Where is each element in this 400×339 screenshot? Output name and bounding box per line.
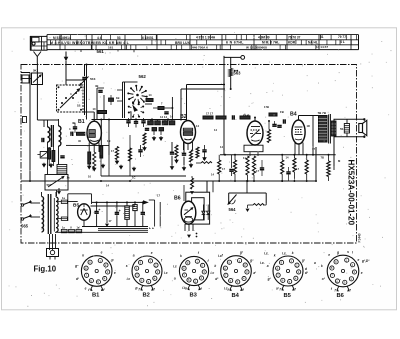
svg-text:F1440: F1440: [358, 233, 362, 242]
svg-text:76 76 37: 76 76 37: [288, 35, 301, 39]
svg-text:e: e: [361, 271, 363, 275]
wire x86: [86, 65, 88, 120]
svg-text:i.c.: i.c.: [282, 252, 287, 256]
svg-text:B6: B6: [174, 196, 181, 202]
svg-text:6 15051: 6 15051: [142, 36, 154, 40]
rotary wafer switch upper: [127, 85, 147, 106]
svg-text:1B: 1B: [116, 96, 119, 100]
tube B4: [292, 120, 305, 144]
B1 leads: [71, 143, 109, 153]
svg-text:81: 81: [320, 35, 324, 39]
svg-text:17: 17: [157, 194, 160, 198]
resistor below B3 join: [247, 175, 284, 182]
dial wavelength numbers row: [53, 35, 346, 40]
rectifier tube B5: [78, 204, 91, 220]
B1 top coupling wire: [92, 119, 187, 121]
coil with core: [57, 165, 67, 175]
svg-text:1: 1: [146, 46, 148, 50]
B2 grid wire: [187, 85, 226, 121]
B6 diodes: [202, 205, 210, 220]
svg-text:17: 17: [222, 167, 225, 171]
transformer bottom tap boxes: [61, 226, 81, 233]
svg-text:i.c: i.c: [211, 271, 215, 275]
svg-text:HX523A-00-01-20: HX523A-00-01-20: [347, 160, 356, 226]
svg-text:g⁴: g⁴: [249, 258, 254, 262]
svg-text:U: U: [70, 227, 72, 230]
svg-text:KDR: KDR: [288, 40, 296, 44]
oscillator coil L2: [59, 119, 61, 152]
osc resistor wires: [49, 147, 53, 166]
resistor 563: [229, 69, 241, 90]
cap drop 231: [229, 155, 233, 176]
svg-text:i.c: i.c: [164, 271, 168, 275]
ground B1: [88, 165, 90, 166]
svg-text:e: e: [358, 258, 360, 262]
resistor drop 282: [281, 155, 284, 181]
wire antenna down: [36, 63, 38, 73]
filter cap1: [94, 202, 101, 226]
chassis frame dash-dot border: [21, 65, 357, 244]
svg-text:B2: B2: [143, 293, 150, 299]
screen wire corner: [329, 155, 335, 181]
antenna trimmer: [21, 69, 43, 85]
svg-text:565: 565: [21, 224, 29, 229]
caps under switch: [126, 118, 145, 128]
svg-text:FB: FB: [280, 110, 284, 114]
svg-text:g⁴: g⁴: [74, 264, 79, 268]
svg-text:14: 14: [149, 93, 152, 97]
svg-text:i.c: i.c: [127, 277, 131, 281]
svg-text:14: 14: [170, 115, 173, 119]
resistor below B1: [100, 146, 103, 158]
tube socket diagram B5: [267, 251, 309, 292]
caps mid area: [222, 160, 299, 176]
svg-text:14: 14: [196, 124, 199, 128]
svg-text:14: 14: [286, 156, 289, 160]
heater bus lines: [55, 226, 154, 232]
tube B6: [181, 201, 196, 224]
antenna Y symbol: [34, 52, 42, 64]
AVC bus: [21, 147, 316, 192]
svg-text:5S: 5S: [340, 127, 344, 131]
field coil component: [340, 119, 350, 137]
power transformer secondary: [56, 197, 58, 232]
transformer secondary: [332, 121, 337, 136]
rotary wafer switch lower: [128, 101, 144, 117]
svg-text:i.c.: i.c.: [264, 252, 269, 256]
earth arrow under dial: [64, 52, 69, 86]
svg-text:s: s: [347, 250, 349, 254]
tone switch 564: [227, 193, 266, 212]
svg-text:a: a: [174, 277, 176, 281]
svg-text:B3: B3: [190, 293, 198, 299]
svg-text:1C: 1C: [132, 176, 135, 180]
svg-text:17: 17: [256, 169, 259, 173]
svg-text:4 4: 4 4: [97, 36, 102, 40]
resistor h mid: [196, 157, 212, 164]
svg-text:17: 17: [312, 147, 315, 151]
B2 leads: [184, 142, 193, 150]
wire left edge: [29, 73, 31, 182]
dial lower row: [108, 45, 328, 50]
filter cap2: [115, 202, 122, 226]
B4 leads: [295, 143, 303, 155]
ground B1b: [93, 167, 95, 168]
svg-text:k: k: [321, 264, 323, 268]
scan noise speckles: [9, 32, 392, 307]
loudspeaker: [359, 119, 367, 137]
small parts left of B1: [69, 123, 81, 143]
svg-text:4B: 4B: [72, 121, 75, 125]
svg-text:17: 17: [296, 167, 299, 171]
svg-text:+ +: + +: [149, 226, 154, 230]
tube socket diagram B4: [214, 251, 257, 292]
speaker top wire: [334, 118, 366, 120]
svg-text:14 14: 14 14: [160, 115, 167, 119]
wire from bus to B6: [183, 185, 185, 201]
resistors mid row: [143, 133, 146, 145]
svg-text:1a²: 1a²: [77, 226, 81, 230]
svg-text:B4: B4: [232, 293, 240, 299]
psu bus dots: [96, 201, 144, 203]
r3: [190, 150, 193, 162]
power transformer core: [48, 194, 51, 234]
svg-text:10: 10: [88, 175, 91, 179]
cap drop 283: [286, 167, 290, 181]
svg-text:k: k: [292, 251, 294, 255]
svg-text:5K3: 5K3: [90, 77, 96, 81]
svg-text:5K1: 5K1: [33, 69, 39, 73]
svg-text:i.c: i.c: [218, 254, 222, 258]
wire below B1 b: [88, 164, 90, 166]
svg-text:d: d: [305, 267, 307, 271]
tiny value labels texture: [67, 92, 342, 198]
svg-text:a: a: [267, 264, 269, 268]
fuse arrow above transformer: [57, 188, 61, 195]
grid bus second: [181, 89, 225, 120]
B4 anode wire: [299, 116, 320, 121]
caps below B2: [174, 145, 207, 168]
verticals left of switch: [97, 88, 107, 120]
transformer top wires: [42, 192, 57, 197]
B plus vertical: [312, 116, 314, 155]
dial left end cell with lamp: [31, 36, 48, 51]
svg-text:1B: 1B: [77, 104, 80, 108]
mains plug: [47, 234, 59, 260]
svg-text:14: 14: [106, 184, 109, 188]
svg-text:a: a: [314, 261, 316, 265]
lower bus2: [101, 175, 186, 177]
speaker bottom wire: [334, 136, 366, 138]
wires osc cluster: [37, 85, 71, 196]
wire x109: [108, 120, 110, 156]
svg-text:M 53149914: M 53149914: [53, 36, 71, 40]
svg-text:4 9M 49: 4 9M 49: [258, 36, 270, 40]
transformer winding inner lines: [43, 197, 54, 232]
svg-text:e: e: [328, 253, 330, 257]
components right of switch: [153, 97, 173, 120]
coupling components row dark boxes: [148, 115, 175, 125]
B5 wires: [68, 200, 149, 226]
bus drop wires: [101, 135, 130, 176]
svg-text:17: 17: [109, 219, 112, 223]
oscillator coil L1: [48, 120, 50, 150]
secondary tap boxes: [56, 196, 67, 220]
svg-text:4B: 4B: [95, 84, 98, 88]
terminal box left: [23, 117, 27, 123]
svg-text:g²,D²: g²,D²: [361, 259, 370, 263]
svg-text:B1: B1: [78, 119, 85, 125]
svg-text:14: 14: [214, 128, 217, 132]
svg-text:7B 7B: 7B 7B: [318, 111, 327, 115]
padder trimmer: [37, 152, 47, 159]
tube socket diagram B2: [126, 251, 168, 292]
bus junction dots: [29, 64, 330, 183]
small dark component: [133, 202, 137, 226]
svg-text:B5: B5: [284, 293, 292, 299]
tone resistor: [248, 204, 267, 206]
wire 564 to bus: [246, 181, 248, 193]
svg-text:4 L: 4 L: [340, 40, 345, 44]
B3 anode stub: [254, 117, 256, 122]
caps row above B3: [203, 112, 250, 120]
B5 heater loop box: [68, 194, 92, 221]
grid resistor left of B1: [77, 132, 85, 135]
resistor drop 307: [305, 155, 308, 181]
coil core: [50, 125, 52, 147]
transformer core: [329, 114, 331, 144]
svg-text:567: 567: [47, 183, 52, 187]
B2 cathode cap dark: [182, 142, 187, 171]
resistor R osc: [48, 148, 51, 159]
svg-text:561: 561: [97, 49, 105, 54]
svg-text:14: 14: [211, 173, 214, 177]
svg-text:k: k: [180, 254, 182, 258]
svg-text:NA HL: NA HL: [308, 40, 318, 44]
switch feed wires: [117, 82, 152, 120]
svg-text:e: e: [114, 271, 116, 275]
cap left of B1: [70, 132, 72, 136]
heater vertical wires: [149, 200, 160, 227]
svg-text:M 4 HILVSI WIENGTBWIEB KL KR: M 4 HILVSI WIENGTBWIEB KL KR NM 4 L: [50, 41, 130, 45]
left mid components: [101, 145, 143, 172]
B3 cathode loop: [244, 145, 263, 156]
caps osc: [42, 138, 65, 168]
svg-text:17B: 17B: [264, 105, 269, 109]
svg-text:17 17: 17 17: [206, 112, 213, 116]
resistor drop 219: [218, 155, 221, 181]
mid vertical wires to b6: [212, 181, 214, 192]
svg-text:l: l: [352, 251, 353, 255]
ticks below band: [81, 50, 134, 53]
svg-text:10: 10: [93, 107, 96, 111]
svg-text:Fig.10: Fig.10: [34, 265, 57, 274]
svg-text:s: s: [126, 264, 128, 268]
svg-text:i.c.: i.c.: [260, 261, 265, 265]
tube B1: [87, 112, 101, 144]
svg-text:563: 563: [234, 71, 242, 76]
r below B3 b: [252, 156, 255, 175]
svg-text:k: k: [274, 254, 276, 258]
svg-text:14 14.57: 14 14.57: [316, 45, 328, 49]
svg-text:k: k: [214, 264, 216, 268]
tone ground arrow: [246, 205, 250, 212]
tube socket diagram B6: [321, 250, 363, 292]
screen resistor: [327, 161, 330, 177]
tube B2: [181, 121, 196, 144]
svg-text:a: a: [133, 254, 135, 258]
svg-text:17: 17: [111, 149, 114, 153]
dial station names row: [50, 40, 345, 45]
ic labels: [218, 251, 370, 272]
svg-text:e: e: [151, 251, 153, 255]
mains switch 565: [21, 200, 40, 229]
trimmer 5K3: [79, 65, 96, 116]
svg-text:B4: B4: [290, 112, 297, 118]
resistor drop 294: [293, 155, 296, 181]
pilot lamp circle: [224, 56, 245, 155]
resistor below B1 b: [88, 152, 91, 164]
band switch 567: [45, 175, 68, 191]
filter cap3: [141, 202, 145, 226]
dial tick marks: [50, 35, 356, 50]
svg-text:k: k: [82, 253, 84, 257]
svg-text:161: 161: [108, 46, 113, 50]
mid second row parts: [145, 128, 164, 136]
small resistor right of switch: [146, 99, 153, 102]
antenna terminal box: [22, 75, 29, 83]
svg-text:53: 53: [117, 36, 121, 40]
components B3-B4: [267, 110, 285, 143]
B6 leads and ground: [185, 224, 197, 238]
r4: [196, 147, 199, 158]
svg-text:e: e: [85, 287, 87, 291]
svg-text:562: 562: [139, 74, 147, 79]
dial scale band: [47, 35, 359, 50]
small parts above x97: [95, 84, 114, 105]
svg-text:446 750A 6: 446 750A 6: [192, 46, 208, 50]
tube socket diagram B1: [74, 251, 116, 292]
svg-text:1B: 1B: [307, 124, 310, 128]
tube B3: [247, 121, 263, 145]
resistor R osc2: [52, 151, 55, 162]
B6 outer grid loop: [186, 192, 210, 224]
tube socket diagram B3: [173, 251, 214, 291]
svg-text:B6: B6: [337, 293, 345, 299]
svg-text:M M. 6 7HL: M M. 6 7HL: [262, 41, 279, 45]
tuning gang capacitor box: [57, 80, 95, 112]
svg-text:4 878 1 304A: 4 878 1 304A: [196, 36, 216, 40]
screen feed wire: [220, 119, 336, 166]
B6 inner grid loop: [192, 198, 205, 220]
svg-text:7B: 7B: [321, 156, 324, 160]
resistors below B2: [175, 145, 178, 158]
svg-text:B1: B1: [92, 293, 100, 299]
svg-text:W 1011080608: W 1011080608: [246, 45, 267, 49]
wire x102: [100, 120, 102, 147]
svg-text:1B: 1B: [107, 139, 110, 143]
resistor drop 235: [233, 155, 236, 181]
svg-text:564: 564: [229, 207, 237, 212]
grounds mid: [142, 136, 163, 151]
svg-text:BRX LUX: BRX LUX: [175, 41, 191, 45]
svg-text:14: 14: [220, 145, 223, 149]
cap drop x172: [170, 142, 175, 170]
svg-text:e: e: [101, 251, 103, 255]
output transformer primary: [319, 116, 328, 143]
svg-text:1a: 1a: [67, 176, 70, 180]
filter resistor dark box: [125, 202, 130, 226]
svg-text:6 N 67HL: 6 N 67HL: [226, 41, 244, 45]
svg-text:79 77: 79 77: [338, 35, 346, 39]
svg-text:i.c: i.c: [173, 264, 177, 268]
resistor above B6: [190, 176, 194, 195]
psu ground arrow: [105, 202, 112, 227]
resistors below B3: [246, 156, 249, 175]
power transformer primary: [42, 197, 44, 233]
resistor below B1 c: [93, 152, 96, 168]
